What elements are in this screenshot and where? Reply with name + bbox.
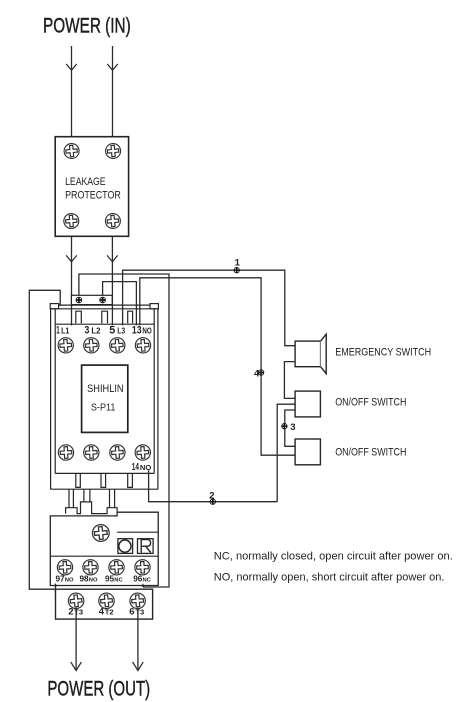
aux block on top of contactor [71, 295, 112, 304]
svg-text:4: 4 [254, 368, 260, 379]
terminal row top line [55, 323, 154, 325]
terminal labels 1L1 3L2 5L3 13NO [56, 324, 152, 336]
svg-text:95: 95 [105, 575, 115, 584]
svg-text:T2: T2 [105, 607, 114, 616]
svg-text:ON/OFF SWITCH: ON/OFF SWITCH [335, 397, 406, 409]
node 4 terminal [258, 369, 264, 375]
svg-text:NO: NO [65, 578, 74, 584]
emergency switch body [295, 341, 321, 367]
wire emergency bottom to on/off switch1 top [284, 362, 295, 399]
wire switch1 bottom to switch2 top via node 3 [285, 410, 295, 446]
on/off switch 1 body [295, 391, 320, 417]
svg-text:NO, normally open, short circu: NO, normally open, short circuit after p… [214, 572, 445, 584]
SHIHLIN S-P11 nameplate box [82, 365, 128, 432]
arrow on L1 in wire [66, 64, 77, 70]
contactor screw 13NO [135, 337, 151, 353]
svg-text:3: 3 [290, 422, 295, 433]
leakage protector screw top-right [105, 143, 121, 159]
contactor screw 2T1 bottom [58, 444, 74, 460]
overload screw 95 [108, 559, 124, 575]
svg-text:POWER (OUT): POWER (OUT) [47, 676, 150, 700]
contactor screw 5L3 [109, 337, 125, 353]
overload top bracket profile [66, 502, 118, 514]
strip screw 4T2 [98, 592, 115, 609]
power out wire left [75, 608, 77, 671]
overload O indicator box [118, 539, 133, 554]
svg-text:6: 6 [129, 606, 134, 617]
contactor screw 3L2 [83, 337, 99, 353]
terminal separator tabs top row [76, 311, 82, 323]
wire switch1 mid terminal down to node2 line [277, 404, 295, 502]
contactor cap top line [59, 304, 150, 306]
svg-text:L2: L2 [91, 326, 101, 335]
strip labels [68, 606, 144, 617]
svg-text:LEAKAGE: LEAKAGE [65, 176, 106, 188]
svg-text:1: 1 [235, 258, 241, 269]
node 2 terminal [210, 499, 216, 505]
coil wire from A1 screw: up, right, down right side to 96NC [79, 274, 169, 587]
overload labels [56, 575, 152, 584]
contactor body outer right [157, 309, 159, 489]
svg-text:PROTECTOR: PROTECTOR [65, 190, 121, 202]
arrow on L1 mid wire [66, 255, 77, 261]
contactor cap left tab [50, 304, 58, 309]
svg-text:1: 1 [56, 324, 59, 336]
contactor pins to overload [69, 489, 73, 508]
overload adjust screw [92, 524, 110, 542]
svg-text:NO: NO [140, 463, 152, 472]
svg-text:S-P11: S-P11 [91, 402, 116, 413]
contactor screw 6T3 bottom [109, 444, 125, 460]
svg-text:SHIHLIN: SHIHLIN [87, 383, 124, 395]
coil wire from A2 screw: up and right, down to 13NO row [103, 282, 137, 326]
contactor cap right tab [150, 304, 158, 309]
arrow pointing to 96NC [141, 583, 144, 586]
svg-text:ON/OFF SWITCH: ON/OFF SWITCH [335, 447, 406, 459]
node 1 terminal [234, 267, 240, 273]
svg-text:5: 5 [109, 324, 115, 336]
contactor body inner right [153, 309, 155, 474]
node 3 terminal [281, 423, 287, 429]
wire line3: from 13NO row up and right to V4 down to on/off switch 2 [140, 278, 295, 455]
svg-text:NC: NC [143, 578, 152, 584]
strip screw 6T3 [129, 593, 145, 609]
arrow on L3 in wire [107, 64, 118, 70]
svg-text:EMERGENCY SWITCH: EMERGENCY SWITCH [335, 347, 431, 359]
leakage protector screw bottom-left [63, 213, 79, 229]
overload screw row separator [50, 555, 158, 557]
bottom separator tabs [76, 473, 81, 487]
overload inner line right section [117, 531, 158, 533]
output terminal strip [56, 589, 153, 619]
overload screw 98 [82, 559, 98, 575]
wire L3 power in [112, 46, 114, 137]
contactor screw 4T2 bottom [83, 444, 99, 460]
svg-text:14: 14 [132, 462, 139, 473]
contactor screw 1L1 [58, 337, 74, 353]
wire line1: from 13NO row up and right to emergency switch top [123, 270, 296, 346]
leakage protector screw top-left [63, 143, 79, 159]
contactor body inner left [54, 309, 56, 474]
arrow out right [133, 662, 144, 671]
svg-text:3: 3 [84, 324, 89, 336]
overload R indicator box [138, 539, 154, 554]
aux screw A2 [99, 297, 106, 304]
aux screw A1 [76, 297, 83, 304]
svg-text:97: 97 [56, 575, 66, 584]
contactor bottom outer line [51, 488, 158, 490]
arrow out left [71, 662, 82, 671]
svg-text:96: 96 [133, 575, 143, 584]
contactor bottom inner line [55, 472, 154, 474]
wire L3 box to contactor [111, 236, 113, 325]
arrow on L3 mid wire [107, 255, 118, 261]
on/off switch 2 body [295, 439, 320, 465]
svg-text:L1: L1 [61, 326, 70, 335]
contactor body outer left [50, 309, 52, 489]
svg-text:T3: T3 [135, 607, 144, 616]
svg-text:98: 98 [80, 575, 90, 584]
svg-text:NC, normally closed, open circ: NC, normally closed, open circuit after … [214, 551, 453, 563]
overload relay body [50, 512, 158, 585]
leakage protector box [55, 137, 128, 237]
svg-text:NC: NC [114, 578, 123, 584]
label 14NO [132, 462, 152, 473]
svg-text:NO: NO [142, 326, 151, 335]
wire left outer loop (cap to 97NO) [29, 290, 60, 589]
svg-text:POWER (IN): POWER (IN) [43, 14, 131, 38]
overload screw 97 [57, 559, 73, 575]
strip screw 2T1 [68, 592, 85, 609]
svg-text:L3: L3 [117, 326, 125, 335]
wire L1 power in [71, 46, 73, 137]
svg-text:NO: NO [89, 578, 98, 584]
svg-text:2: 2 [68, 606, 73, 617]
wire L1 box to contactor [71, 236, 73, 325]
emergency switch mushroom cap [321, 334, 327, 373]
power out wire right [137, 608, 139, 671]
overload screw 96 [134, 559, 150, 575]
contactor cap bottom line [50, 308, 158, 310]
svg-text:2: 2 [209, 491, 214, 502]
leakage protector screw bottom-right [105, 213, 121, 229]
arrow pointing to 97NO [55, 585, 57, 594]
wire 14NO down to node2 line to V5 [149, 470, 278, 501]
contactor screw 14NO bottom [135, 444, 151, 460]
svg-text:13: 13 [132, 324, 142, 336]
